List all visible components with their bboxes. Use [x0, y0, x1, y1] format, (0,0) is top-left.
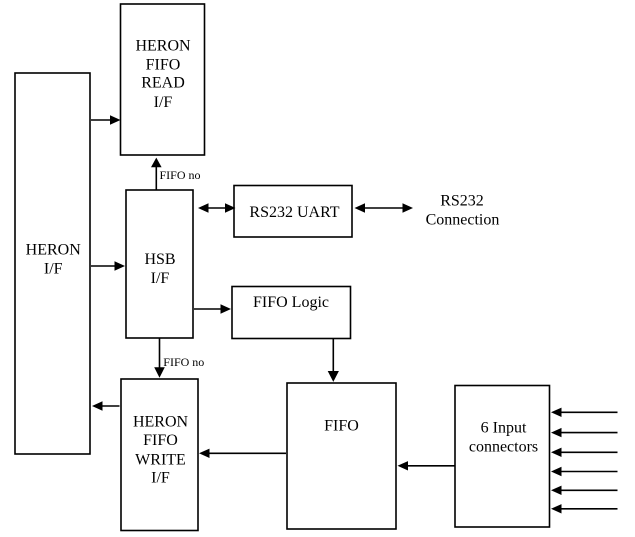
- svg-text:Connection: Connection: [426, 211, 500, 228]
- svg-text:FIFO: FIFO: [146, 57, 181, 74]
- svg-text:HSB: HSB: [144, 251, 175, 268]
- svg-text:I/F: I/F: [151, 470, 170, 487]
- svg-text:connectors: connectors: [469, 439, 538, 456]
- svg-text:FIFO: FIFO: [324, 417, 359, 434]
- svg-text:FIFO no: FIFO no: [160, 168, 201, 182]
- svg-text:I/F: I/F: [44, 261, 63, 278]
- svg-text:FIFO no: FIFO no: [163, 355, 204, 369]
- svg-text:FIFO Logic: FIFO Logic: [253, 294, 329, 311]
- svg-text:HERON: HERON: [26, 242, 82, 259]
- svg-text:6 Input: 6 Input: [481, 420, 527, 437]
- svg-text:RS232: RS232: [440, 193, 484, 210]
- svg-text:HERON: HERON: [133, 414, 189, 431]
- svg-text:FIFO: FIFO: [143, 432, 178, 449]
- svg-text:I/F: I/F: [151, 270, 170, 287]
- svg-text:WRITE: WRITE: [135, 451, 186, 468]
- svg-text:RS232 UART: RS232 UART: [249, 204, 339, 221]
- svg-text:READ: READ: [141, 75, 185, 92]
- svg-text:HERON: HERON: [135, 38, 191, 55]
- svg-text:I/F: I/F: [154, 94, 173, 111]
